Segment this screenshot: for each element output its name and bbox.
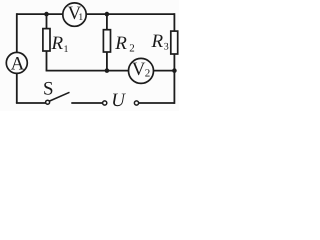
svg-text:1: 1 bbox=[64, 44, 69, 55]
svg-text:A: A bbox=[11, 54, 25, 75]
svg-text:S: S bbox=[43, 79, 54, 100]
svg-text:R: R bbox=[51, 33, 64, 54]
svg-text:1: 1 bbox=[78, 12, 83, 23]
svg-text:R: R bbox=[114, 33, 127, 54]
svg-text:U: U bbox=[111, 90, 126, 111]
svg-text:V: V bbox=[132, 59, 146, 80]
svg-text:R: R bbox=[151, 31, 164, 52]
svg-text:2: 2 bbox=[145, 68, 151, 80]
svg-text:3: 3 bbox=[164, 42, 169, 53]
svg-text:2: 2 bbox=[129, 43, 135, 55]
